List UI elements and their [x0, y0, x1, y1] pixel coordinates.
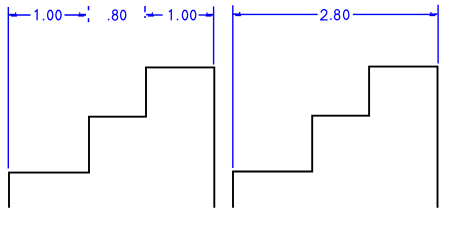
extension line tick upper at x 88.5: [88, 6, 90, 10]
extension line left of right part: [232, 5, 234, 168]
dim text .80: [108, 10, 126, 20]
dimension line 2.80 right segment: [353, 13, 431, 15]
arrowhead dim2 right: [206, 12, 214, 16]
arrowhead dim1 left: [9, 12, 17, 16]
dim text 1.00 second: [169, 10, 196, 20]
extension line right of right part: [437, 5, 439, 64]
dimension line 1.00b right segment: [199, 14, 213, 16]
dimension line 1.00 right segment: [65, 14, 87, 16]
arrowhead dim3 left: [233, 12, 241, 16]
arrowhead dim3 right: [430, 12, 438, 16]
extension line right of left part: [213, 6, 215, 64]
arrowhead dim1 right: [78, 12, 86, 16]
extension line tick upper at x 145: [144, 6, 146, 12]
dim text 2.80: [321, 10, 349, 20]
right part outline (staircase): [233, 67, 438, 208]
dim text 1.00 first: [35, 10, 61, 20]
dimension line 1.00 left segment: [9, 14, 31, 16]
extension line dot lower at x 145: [144, 16, 146, 18]
dimension line 1.00b left segment: [152, 14, 163, 16]
left part outline (staircase): [9, 67, 214, 207]
extension line left of left part: [7, 7, 9, 169]
extension line tick lower at x 88.5: [88, 18, 90, 22]
arrowhead dim2 left: [146, 12, 154, 16]
dimension line 2.80 left segment: [240, 13, 318, 15]
